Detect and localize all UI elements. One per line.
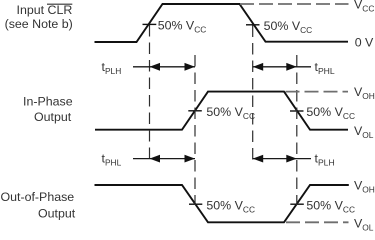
node label Input CLR [17, 3, 73, 17]
wire input CLR waveform [95, 4, 349, 42]
node 50% tick in-phase rising [188, 110, 202, 112]
svg-text:VCC: VCC [354, 0, 374, 13]
wire VOH level gray dashed extension (in-phase) [286, 91, 349, 93]
wire cursor dashed line 3 input fall 50% [252, 26, 254, 164]
node 50% tick input rising [143, 23, 157, 25]
svg-text:Output: Output [38, 206, 76, 220]
wire tPLH measurement arrow top-left [133, 63, 195, 71]
wire out-of-phase output waveform [95, 185, 349, 222]
svg-text:VOL: VOL [354, 217, 374, 231]
wire tPLH measurement arrow bottom-right [253, 155, 311, 163]
svg-text:50% VCC: 50% VCC [206, 198, 255, 214]
node 50% tick input falling [246, 24, 260, 26]
svg-text:tPLH: tPLH [102, 60, 122, 76]
wire tPHL measurement arrow bottom-left [133, 155, 195, 163]
wire cursor dashed line 1 input rise 50% [149, 25, 151, 163]
svg-text:tPHL: tPHL [315, 60, 335, 76]
node 50% tick out-of-phase falling [189, 203, 202, 205]
wire VOL level gray dashed extension (out-of-phase) [286, 221, 349, 223]
svg-text:tPHL: tPHL [102, 151, 122, 167]
wire cursor dashed line 2 output transition 1 [194, 55, 196, 205]
svg-text:Out-of-Phase: Out-of-Phase [1, 190, 75, 204]
svg-text:VOH: VOH [354, 85, 375, 101]
svg-text:50% VCC: 50% VCC [158, 19, 207, 35]
svg-text:50% VCC: 50% VCC [306, 198, 355, 214]
svg-text:Input CLR: Input CLR [17, 3, 73, 17]
wire tPHL measurement arrow top-right [253, 63, 311, 71]
wire VCC level gray dashed extension [240, 3, 349, 5]
node label In-Phase Output [23, 94, 73, 124]
node 50% tick in-phase falling [290, 110, 304, 112]
svg-text:50% VCC: 50% VCC [264, 19, 313, 35]
svg-text:(see Note b): (see Note b) [5, 17, 73, 31]
svg-text:50% VCC: 50% VCC [206, 105, 255, 121]
svg-text:tPLH: tPLH [315, 151, 335, 167]
wire cursor dashed line 4 output transition 2 [296, 55, 298, 205]
svg-text:0 V: 0 V [355, 36, 374, 50]
node label Out-of-Phase Output [1, 190, 76, 220]
svg-text:In-Phase: In-Phase [23, 94, 73, 108]
svg-text:Output: Output [34, 110, 72, 124]
svg-text:VOH: VOH [354, 178, 375, 194]
svg-text:VOL: VOL [354, 124, 374, 140]
wire in-phase output waveform [95, 92, 348, 130]
node 50% tick out-of-phase rising [290, 203, 304, 205]
svg-text:50% VCC: 50% VCC [306, 105, 355, 121]
